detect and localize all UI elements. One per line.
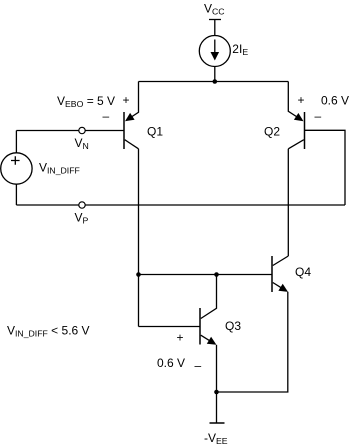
svg-text:Q3: Q3 bbox=[225, 319, 241, 333]
wire Q2 base loop bbox=[305, 130, 346, 205]
svg-text:VEBO = 5 V: VEBO = 5 V bbox=[57, 94, 115, 109]
node VP bbox=[79, 202, 85, 208]
ground -VEE bbox=[210, 392, 225, 423]
svg-text:VN: VN bbox=[75, 136, 89, 151]
wire VP bbox=[16, 204, 345, 206]
svg-text:VP: VP bbox=[75, 211, 89, 226]
junction node below current source bbox=[213, 79, 218, 84]
wire Q2 collector to Q4 collector bbox=[287, 149, 289, 256]
svg-text:Q2: Q2 bbox=[264, 124, 280, 138]
svg-text:0.6 V: 0.6 V bbox=[321, 93, 349, 107]
wire Q3 emitter bbox=[216, 345, 218, 392]
transistor Q3 bbox=[200, 308, 216, 345]
wire Q3 base bbox=[139, 326, 201, 328]
wire VN bbox=[16, 130, 124, 132]
source VIN_DIFF bbox=[1, 131, 32, 206]
svg-text:VIN_DIFF: VIN_DIFF bbox=[39, 160, 80, 175]
junction node Q3 collector bbox=[214, 272, 219, 277]
svg-text:–: – bbox=[195, 359, 202, 373]
wire Q1 collector bbox=[138, 149, 140, 327]
svg-text:+: + bbox=[298, 93, 305, 107]
svg-text:–: – bbox=[315, 109, 322, 123]
wire Q3 collector bbox=[201, 275, 217, 319]
wire Q4 base line bbox=[139, 274, 273, 276]
svg-text:0.6 V: 0.6 V bbox=[157, 356, 185, 370]
transistor Q2 bbox=[288, 112, 304, 149]
wire Q4 emitter bbox=[217, 292, 288, 392]
svg-text:+: + bbox=[177, 331, 184, 345]
wire top rail bbox=[139, 81, 289, 83]
wire Q2 emitter bbox=[288, 82, 301, 120]
svg-text:-VEE: -VEE bbox=[204, 431, 228, 446]
junction node Q1 collector bbox=[136, 272, 141, 277]
svg-text:–: – bbox=[103, 109, 110, 123]
svg-text:Q1: Q1 bbox=[147, 124, 163, 138]
svg-text:Q4: Q4 bbox=[295, 265, 311, 279]
wire Q1 emitter bbox=[128, 82, 139, 120]
node VN bbox=[79, 127, 85, 133]
svg-text:VIN_DIFF < 5.6 V: VIN_DIFF < 5.6 V bbox=[7, 324, 90, 339]
svg-text:+: + bbox=[123, 93, 130, 107]
junction node emitters bbox=[214, 390, 219, 395]
transistor Q4 bbox=[272, 256, 288, 292]
current source 2IE bbox=[199, 36, 230, 82]
svg-text:2IE: 2IE bbox=[232, 42, 248, 57]
svg-text:VCC: VCC bbox=[204, 2, 225, 17]
transistor Q1 bbox=[124, 112, 139, 149]
node VCC bbox=[209, 20, 221, 36]
